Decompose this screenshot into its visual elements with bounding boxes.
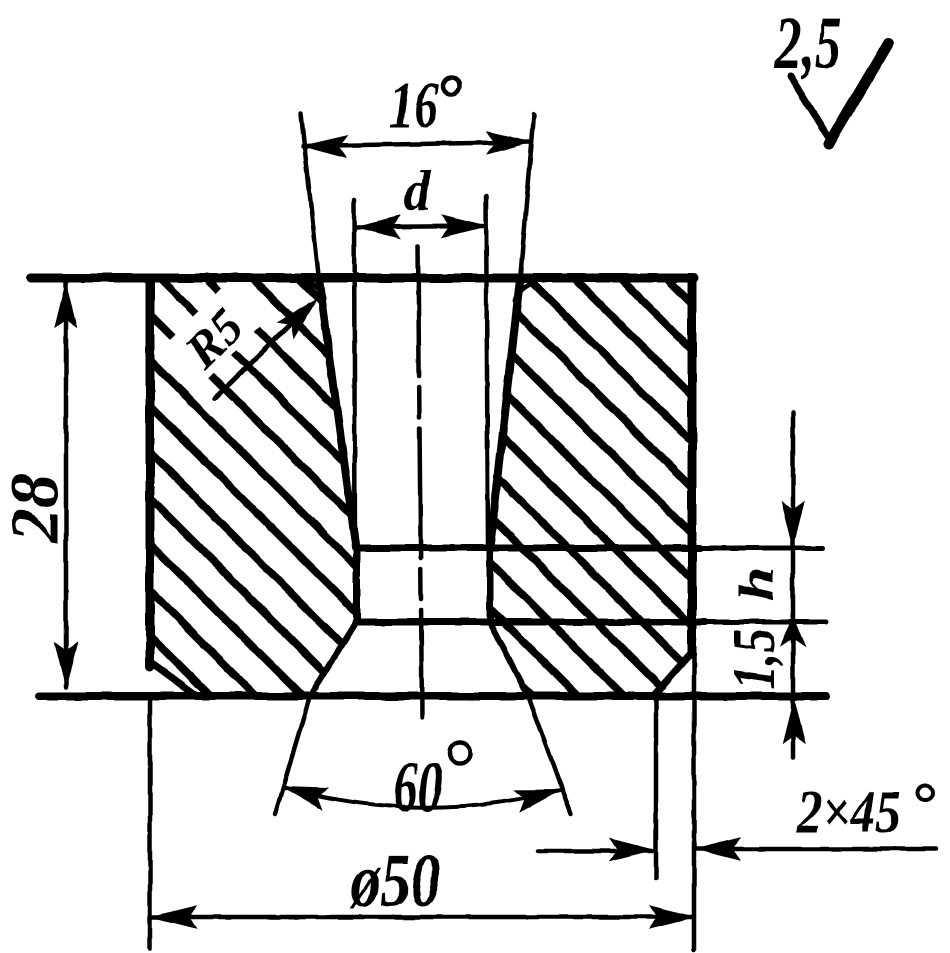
d extension line left [354,200,355,548]
svg-text:16: 16 [390,68,439,142]
degree circle of 45deg [918,786,933,801]
chamfer dim line left part [538,849,652,854]
outlet cone left wall (60 deg) [310,622,356,696]
centerline [418,246,422,718]
d arrow right [442,215,486,237]
dia50 arrow right [650,906,694,928]
60deg arrow left [283,787,328,810]
svg-text:ø50: ø50 [349,838,440,923]
28 dimension line [64,283,69,687]
16deg extension line right (cone wall extended) [520,115,534,280]
R5 fillet left bore corner [305,282,324,299]
conical bore left wall (16 deg) [319,279,356,548]
svg-text:2,5: 2,5 [774,3,841,84]
h dimension line [791,412,796,757]
R5 fillet right bore corner [515,282,536,301]
outlet cone right wall (60 deg) [490,622,528,696]
28 arrow bottom [55,643,77,687]
degree circle of 16deg [443,78,460,95]
calibration band left wall [354,548,361,622]
right edge of bushing [688,278,697,655]
h arrow bottom (up at band bottom) [781,618,805,646]
calibration band bottom line [356,619,705,626]
d extension line right [486,196,488,548]
svg-text:1,5: 1,5 [720,628,787,689]
h arrow top (down) [782,502,804,546]
60deg extension left (cone wall extended) [275,696,310,814]
chamfer dim line right part [697,847,936,852]
left edge of bushing [146,278,155,667]
dia50 extension line right [692,655,697,950]
svg-text:60: 60 [393,748,442,828]
svg-text:28: 28 [0,474,73,544]
16deg extension line left (cone wall extended) [301,114,319,280]
16deg dimension line [303,142,531,146]
60deg arrow right [515,790,560,812]
chamfer arrow pointing right [610,839,654,861]
60deg arc dimension line [283,787,560,807]
R5 leader line [215,305,310,398]
chamfer extension tick [654,700,659,878]
bottom-left chamfer [152,663,197,696]
calibration band right wall [487,548,494,622]
bottom face of bushing [39,692,826,700]
16deg arrow left [303,136,347,158]
degree circle of 60deg [450,743,471,764]
dia50 arrow left [152,906,196,928]
dia50 extension line left [148,696,153,948]
svg-text:h: h [730,567,785,602]
bottom-right chamfer [655,652,692,694]
dia50 dimension line [152,915,694,920]
chamfer arrow pointing left [696,838,740,860]
16deg arrow right [487,132,531,154]
d dimension line [356,226,486,227]
conical bore right wall (16 deg) [490,279,520,548]
hatching right block [470,36,710,920]
top face of bushing [31,274,694,283]
d arrow left [356,216,400,238]
1,5 arrow (up at bottom face) [783,699,805,743]
white pocket behind R5 label [160,282,266,388]
R5 leader arrow [278,299,317,338]
28 arrow top [55,283,77,327]
hatching left block [130,64,380,912]
60deg extension right (cone wall extended) [528,696,571,814]
roughness check mark [790,76,832,143]
calibration band top line [356,545,700,552]
svg-text:2×45: 2×45 [796,779,900,845]
svg-text:d: d [403,160,431,222]
